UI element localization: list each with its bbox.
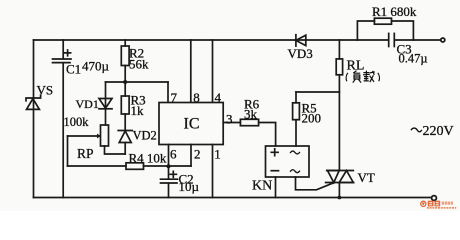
capacitor C2 bbox=[161, 166, 178, 198]
resistor R1 branch bbox=[357, 18, 413, 40]
svg-text:7: 7 bbox=[171, 90, 178, 105]
wire wiper/R4 run bbox=[68, 165, 127, 167]
svg-text:470µ: 470µ bbox=[82, 59, 110, 74]
svg-text:3: 3 bbox=[226, 112, 233, 127]
wire KN bottom-left to bottom rail bbox=[275, 177, 277, 198]
diode VD1 bbox=[99, 82, 112, 125]
diode VD3 bbox=[296, 35, 306, 46]
resistor R2 bbox=[121, 40, 129, 96]
svg-text:10µ: 10µ bbox=[179, 179, 200, 194]
svg-text:6: 6 bbox=[170, 147, 177, 162]
node B (pin6/C2 junction) bbox=[167, 164, 171, 168]
KN tilde top bbox=[291, 151, 300, 154]
wire pin 6 bbox=[168, 145, 170, 167]
svg-text:1k: 1k bbox=[131, 103, 145, 118]
node A (R2/R3 junction) bbox=[123, 80, 127, 84]
svg-text:200: 200 bbox=[302, 111, 322, 126]
resistor R4 bbox=[126, 163, 144, 170]
wire top rail right of C3 bbox=[395, 39, 441, 41]
wire pin 2 bbox=[190, 145, 192, 167]
label RL load (negzai) bbox=[346, 71, 379, 83]
wire pin 7 bbox=[167, 82, 169, 103]
resistor R3 bbox=[121, 96, 129, 131]
svg-text:3k: 3k bbox=[244, 107, 258, 122]
resistor R5 bbox=[293, 92, 300, 146]
wire R6 to KN bbox=[259, 123, 276, 147]
terminal bottom right bbox=[432, 196, 437, 201]
wire pin 4 bbox=[212, 40, 214, 103]
svg-text:VD1: VD1 bbox=[76, 97, 99, 111]
svg-text:IC: IC bbox=[184, 116, 200, 133]
wire pin 8 bbox=[190, 40, 192, 103]
svg-text:R1 680k: R1 680k bbox=[372, 4, 417, 19]
KN plus sign bbox=[271, 149, 278, 156]
potentiometer RP bbox=[68, 125, 126, 166]
svg-text:2: 2 bbox=[194, 147, 201, 162]
diode VD2 bbox=[118, 131, 132, 155]
KN minus sign bbox=[271, 170, 278, 172]
wire pin 3 to R6 bbox=[223, 122, 240, 124]
svg-text:VD2: VD2 bbox=[133, 128, 157, 142]
svg-text:RP: RP bbox=[77, 146, 94, 161]
svg-text:1: 1 bbox=[214, 147, 221, 162]
wire bottom rail bbox=[34, 197, 432, 199]
rectifier KN box bbox=[266, 146, 310, 177]
node C (VT/bottom rail) bbox=[338, 196, 342, 200]
terminal top right bbox=[441, 38, 445, 42]
wire top rail bbox=[34, 39, 389, 41]
triac VT bbox=[326, 171, 354, 198]
zener diode VS bbox=[26, 95, 41, 109]
svg-text:VS: VS bbox=[37, 83, 54, 98]
svg-text:100k: 100k bbox=[64, 115, 90, 129]
svg-text:VT: VT bbox=[358, 170, 375, 185]
svg-text:C1: C1 bbox=[66, 62, 81, 77]
wire R5 tap to RL column bbox=[296, 91, 339, 93]
svg-text:8: 8 bbox=[193, 90, 200, 105]
svg-text:VD3: VD3 bbox=[288, 46, 313, 61]
watermark text blocks bbox=[427, 201, 456, 209]
wire KN gate path to VT bbox=[296, 177, 335, 190]
resistor RL bbox=[336, 40, 342, 171]
wire left rail bbox=[33, 40, 35, 198]
svg-text:4: 4 bbox=[215, 90, 222, 105]
wire node B to pin2 bbox=[169, 165, 192, 167]
svg-text:KN: KN bbox=[252, 179, 272, 194]
wire pin 1 bbox=[212, 145, 214, 198]
svg-text:0.47µ: 0.47µ bbox=[399, 52, 428, 66]
capacitor C3 bbox=[389, 33, 395, 46]
wire R4 to pin6 node bbox=[144, 165, 169, 167]
watermark logo bbox=[421, 201, 426, 206]
capacitor C1 bbox=[53, 40, 72, 198]
svg-text:220V: 220V bbox=[423, 124, 454, 139]
op-amp U1 IC box bbox=[159, 103, 223, 145]
resistor R6 bbox=[240, 119, 258, 125]
label mains 220V bbox=[411, 128, 422, 132]
svg-text:56k: 56k bbox=[129, 57, 149, 72]
wire node A to pin7 bbox=[125, 81, 168, 83]
svg-text:R4 10k: R4 10k bbox=[129, 151, 167, 166]
KN tilde bottom bbox=[291, 170, 300, 173]
wire node A to VD1 bbox=[106, 81, 126, 83]
